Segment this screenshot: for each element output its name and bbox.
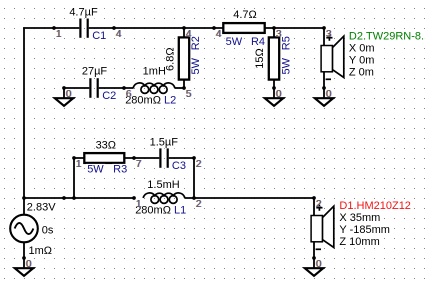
- svg-text:C2: C2: [102, 90, 116, 102]
- svg-text:Z 10mm: Z 10mm: [339, 236, 379, 248]
- svg-text:4: 4: [116, 29, 122, 40]
- source impedance label 1mOhm: [28, 245, 54, 257]
- node 6 junction C2-L2: [122, 86, 126, 90]
- resistor R4 body: [223, 23, 264, 33]
- svg-text:33Ω: 33Ω: [96, 140, 116, 152]
- resistor R3 body: [84, 153, 124, 163]
- speaker D1 magnet rect: [311, 216, 322, 242]
- value label R2 6.8Ohm rotated: [165, 46, 177, 72]
- value label L1 1.5mH: [147, 179, 181, 191]
- svg-text:2: 2: [316, 199, 322, 210]
- speaker D2 X offset label: [348, 42, 376, 54]
- svg-text:280mΩ L2: 280mΩ L2: [125, 95, 176, 107]
- voltage source sine wave: [15, 223, 34, 234]
- node label 2 L1 right: [195, 199, 202, 210]
- node 5 junction L2-R2: [182, 86, 186, 90]
- speaker D1 Z offset label: [338, 236, 380, 248]
- wire C2 to L2 (node 6): [99, 87, 134, 89]
- wire D2 vertical: [323, 28, 325, 88]
- designator label C2: [101, 90, 117, 102]
- node 0 junction source ground: [22, 256, 26, 260]
- capacitor C3 plates: [160, 148, 167, 168]
- wire L2 right lead to node 5: [175, 87, 184, 89]
- svg-text:X 35mm: X 35mm: [339, 212, 380, 224]
- speaker D1 Y offset label: [338, 224, 391, 236]
- value label C2 27uF: [81, 66, 109, 78]
- svg-text:Z 0m: Z 0m: [349, 66, 374, 78]
- wattage label R5 5W rotated: [280, 57, 292, 76]
- wire branch C3 to node 2: [169, 157, 194, 159]
- node label 1 branch: [75, 159, 82, 170]
- speaker D1 X offset label: [338, 212, 381, 224]
- wire left vertical rail node 1: [23, 27, 25, 199]
- ground at node 0 below R5: [265, 88, 283, 106]
- speaker D2 magnet rect: [321, 46, 332, 72]
- value+designator label L2 280mOhm L2: [124, 95, 177, 107]
- svg-text:4.7µF: 4.7µF: [69, 7, 98, 19]
- wire D1 vertical: [313, 198, 315, 258]
- node 1 junction top: [52, 26, 56, 30]
- node 0 junction D2 bottom: [322, 86, 326, 90]
- wattage label R3 5W: [86, 164, 105, 176]
- node label 2 D1 top: [315, 199, 322, 210]
- svg-text:6: 6: [126, 89, 132, 100]
- node label 5: [185, 89, 192, 100]
- node label 6: [125, 89, 132, 100]
- wire branch vertical node 1 down: [73, 158, 75, 198]
- designator label R5 rotated: [280, 35, 292, 51]
- svg-text:1: 1: [56, 29, 62, 40]
- node 4 junction C1 right: [112, 26, 116, 30]
- svg-text:Y -185mm: Y -185mm: [339, 224, 390, 236]
- resistor R5 body: [269, 37, 279, 79]
- node 0 junction R5 bottom: [272, 86, 276, 90]
- wire R5 vertical node 3 to node 0: [273, 28, 275, 88]
- source delay label 0s: [41, 224, 55, 236]
- svg-text:2: 2: [196, 159, 202, 170]
- source value label 2.83V: [26, 201, 57, 213]
- node 1 junction branch left: [72, 156, 76, 160]
- node 1 junction branch bottom: [72, 196, 76, 200]
- value label L2 1mH: [142, 66, 167, 78]
- node label 3 D2 top: [325, 29, 332, 40]
- value label C3 1.5uF: [148, 136, 179, 148]
- svg-text:15Ω: 15Ω: [254, 48, 266, 68]
- designator label R2 rotated: [190, 35, 202, 51]
- node 0 junction C2 left: [62, 86, 66, 90]
- svg-text:5: 5: [186, 89, 192, 100]
- node label 1 L1 left: [135, 199, 142, 210]
- speaker D2 minus terminal: [326, 78, 331, 80]
- svg-text:1mH: 1mH: [143, 66, 166, 78]
- ground at node 0 below D1: [305, 258, 323, 276]
- node label 3 R4 right: [275, 29, 282, 40]
- wire top rail left of C1 (node 1): [23, 27, 79, 29]
- node 2 junction L1 right: [192, 196, 196, 200]
- designator label C3: [171, 160, 187, 172]
- node label 7: [135, 159, 142, 170]
- value label C1 4.7uF: [68, 7, 99, 19]
- node 2 junction D1 top: [312, 196, 316, 200]
- speaker D1 name label red: [338, 200, 412, 212]
- svg-text:280mΩ L1: 280mΩ L1: [135, 204, 186, 216]
- svg-text:4: 4: [186, 29, 192, 40]
- svg-text:3: 3: [326, 29, 332, 40]
- node label 0 D1 ground: [315, 259, 322, 270]
- value label R5 15Ohm rotated: [254, 48, 266, 70]
- svg-text:0s: 0s: [42, 224, 54, 236]
- svg-text:0: 0: [326, 89, 332, 100]
- value label R3 33Ohm: [95, 140, 117, 152]
- node 3 junction R4 right: [272, 26, 276, 30]
- svg-text:4: 4: [216, 29, 222, 40]
- speaker D2 cone: [332, 36, 343, 77]
- node label 0 source ground: [25, 259, 32, 270]
- svg-text:3: 3: [276, 29, 282, 40]
- value+designator label L1 280mOhm L1: [134, 204, 187, 216]
- node 2 junction C3 right: [192, 156, 196, 160]
- svg-text:D1.HM210Z12: D1.HM210Z12: [339, 200, 411, 212]
- svg-text:5W: 5W: [190, 57, 202, 74]
- svg-text:0: 0: [316, 259, 322, 270]
- wire branch vertical node 2 down: [193, 158, 195, 199]
- wire R2 vertical node 4 to node 5: [183, 28, 185, 88]
- svg-text:1mΩ: 1mΩ: [29, 245, 53, 257]
- node label 0 D2 ground: [325, 89, 332, 100]
- node label 4 C1 right: [115, 29, 122, 40]
- inductor L1 coil: [143, 193, 185, 203]
- svg-text:R3: R3: [113, 164, 127, 176]
- svg-text:2: 2: [196, 199, 202, 210]
- wire bottom rail L1 to D1 (node 2): [185, 197, 314, 199]
- resistor R2 body: [179, 37, 189, 79]
- svg-text:0: 0: [276, 89, 282, 100]
- node 7 junction R3-C3: [132, 156, 136, 160]
- svg-text:7: 7: [136, 159, 142, 170]
- svg-text:D2.TW29RN-8.: D2.TW29RN-8.: [349, 30, 424, 42]
- node 4 junction R2 top: [182, 26, 186, 30]
- node label 4 R4 left: [215, 29, 222, 40]
- svg-text:0: 0: [26, 259, 32, 270]
- svg-text:Y 0m: Y 0m: [349, 54, 374, 66]
- designator label C1: [91, 30, 107, 42]
- node label 1 top: [55, 29, 62, 40]
- svg-text:1.5µF: 1.5µF: [150, 136, 179, 148]
- svg-text:6.8Ω: 6.8Ω: [165, 47, 177, 71]
- ground at node 0 below D2: [315, 88, 333, 106]
- svg-text:5W: 5W: [280, 57, 292, 74]
- ground at node 0 near C2: [55, 88, 73, 106]
- node 3 junction D2 top: [322, 26, 326, 30]
- speaker D1 minus terminal: [316, 248, 321, 250]
- svg-text:1: 1: [76, 159, 82, 170]
- wire branch R3 row (node 1 to node 7 to C3): [73, 157, 159, 159]
- capacitor C2 plates: [90, 78, 97, 98]
- node label 2 C3 right: [195, 159, 202, 170]
- wire C2 ground lead: [64, 87, 89, 89]
- node label 0 R5 ground: [275, 89, 282, 100]
- inductor L2 coil: [133, 83, 175, 93]
- svg-text:4.7Ω: 4.7Ω: [233, 9, 257, 21]
- node label 0 C2 ground: [65, 89, 72, 100]
- speaker D2 Z offset label: [348, 66, 375, 78]
- capacitor C1 plates: [80, 18, 87, 38]
- svg-text:1: 1: [136, 199, 142, 210]
- svg-text:R4: R4: [251, 36, 265, 48]
- voltage source V1 circle: [10, 215, 38, 243]
- svg-text:0: 0: [66, 89, 72, 100]
- speaker D1 plus terminal: [316, 205, 322, 211]
- junction bottom rail: [62, 196, 66, 200]
- value label R4 4.7Ohm: [232, 9, 258, 21]
- svg-text:X 0m: X 0m: [349, 42, 375, 54]
- node label 4 R2 top: [185, 29, 192, 40]
- svg-text:5W: 5W: [226, 36, 243, 48]
- svg-text:1.5mH: 1.5mH: [147, 179, 179, 191]
- node 1 junction L1 left: [132, 196, 136, 200]
- svg-text:2.83V: 2.83V: [27, 201, 56, 213]
- wattage label R4 5W: [225, 36, 244, 48]
- ground at node 0 below source: [15, 258, 33, 276]
- wire bottom rail source to L1: [23, 197, 133, 199]
- svg-text:R5: R5: [280, 36, 292, 50]
- junction source top corner: [22, 196, 26, 200]
- speaker D2 name label green: [348, 30, 425, 42]
- node 4 junction R4 left: [212, 26, 216, 30]
- speaker D2 Y offset label: [348, 54, 375, 66]
- node 0 junction D1 ground: [312, 256, 316, 260]
- wattage label R2 5W rotated: [190, 57, 202, 76]
- svg-text:5W: 5W: [87, 164, 104, 176]
- wire source vertical: [23, 198, 25, 258]
- designator label R3: [112, 164, 128, 176]
- speaker D2 plus terminal: [326, 35, 332, 41]
- svg-text:C1: C1: [92, 30, 106, 42]
- designator label R4: [250, 36, 266, 48]
- svg-text:C3: C3: [172, 160, 186, 172]
- svg-text:27µF: 27µF: [82, 66, 108, 78]
- wire top rail C1 to D2 (nodes 4,3): [89, 27, 324, 29]
- speaker D1 cone: [322, 206, 333, 247]
